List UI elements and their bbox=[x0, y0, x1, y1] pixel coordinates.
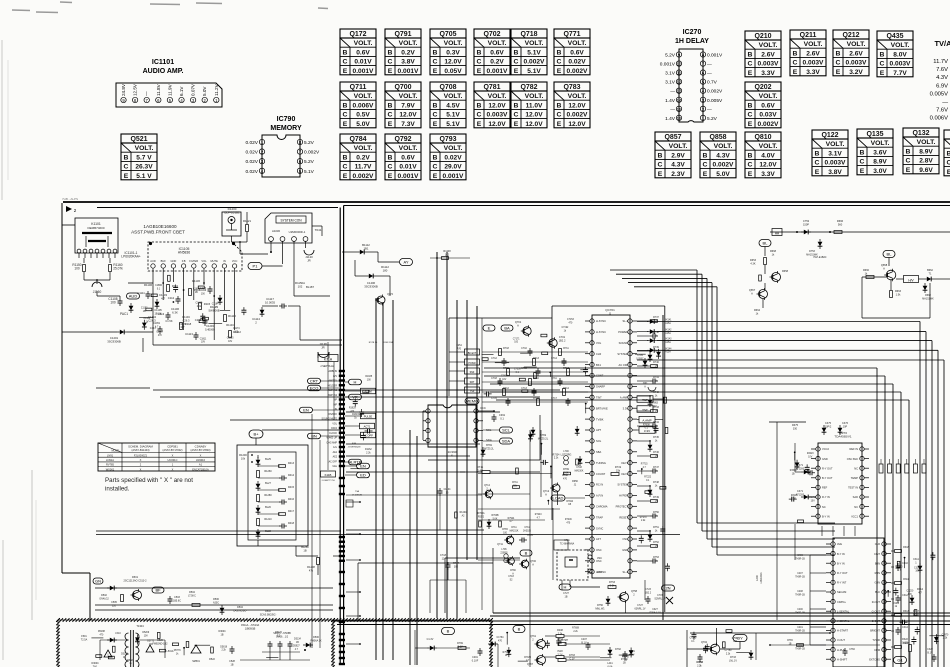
svg-text:R417: R417 bbox=[288, 510, 295, 513]
svg-text:B: B bbox=[557, 102, 562, 109]
svg-text:R416: R416 bbox=[288, 498, 295, 501]
svg-text:Q767: Q767 bbox=[527, 663, 534, 666]
svg-text:24.8V: 24.8V bbox=[121, 83, 126, 96]
svg-text:1k: 1k bbox=[655, 439, 658, 442]
svg-text:D5818: D5818 bbox=[220, 646, 227, 648]
svg-text:470: 470 bbox=[569, 322, 574, 324]
svg-text:3.1V: 3.1V bbox=[665, 80, 676, 86]
svg-text:C400: C400 bbox=[797, 609, 803, 611]
ceramic resonator module X701 bbox=[557, 550, 588, 580]
svg-text:COUNT: COUNT bbox=[596, 472, 606, 476]
svg-text:VOL: VOL bbox=[596, 341, 602, 345]
svg-text:C1404: C1404 bbox=[444, 489, 451, 491]
svg-text:0.07V: 0.07V bbox=[191, 83, 196, 96]
svg-text:B: B bbox=[525, 551, 528, 556]
svg-text:B-Y IN: B-Y IN bbox=[837, 552, 845, 556]
svg-text:UEL: UEL bbox=[333, 466, 338, 468]
svg-text:4.7: 4.7 bbox=[526, 660, 530, 662]
svg-text:2.2k: 2.2k bbox=[943, 638, 948, 640]
svg-text:1B: 1B bbox=[195, 292, 198, 294]
diode chain block D1261 bbox=[249, 430, 263, 438]
svg-text:DEMB74600: DEMB74600 bbox=[87, 226, 104, 230]
svg-text:C1886: C1886 bbox=[155, 285, 162, 287]
svg-text:A: A bbox=[751, 291, 753, 295]
svg-text:5.6K: 5.6K bbox=[493, 518, 498, 520]
horizontal bus band to right edge bbox=[657, 321, 920, 323]
svg-text:H: H bbox=[354, 380, 357, 385]
svg-text:A15A: A15A bbox=[665, 341, 671, 344]
svg-text:R1315: R1315 bbox=[352, 414, 359, 416]
svg-text:102: 102 bbox=[298, 284, 303, 288]
svg-text:B-OUT: B-OUT bbox=[872, 619, 880, 623]
svg-text:VOLT.: VOLT. bbox=[399, 93, 418, 100]
svg-text:4.7: 4.7 bbox=[295, 649, 299, 651]
svg-text:C7418: C7418 bbox=[501, 376, 508, 378]
svg-text:TEST IN: TEST IN bbox=[848, 486, 858, 490]
middle zone link wires bbox=[346, 382, 585, 384]
svg-text:OSC: OSC bbox=[596, 548, 602, 552]
svg-text:102: 102 bbox=[445, 253, 450, 256]
svg-text:Q810: Q810 bbox=[754, 134, 771, 141]
svg-text:VCC1: VCC1 bbox=[851, 514, 858, 518]
svg-text:C716: C716 bbox=[521, 367, 527, 370]
svg-text:CRT: CRT bbox=[310, 379, 319, 384]
svg-text:GND: GND bbox=[822, 457, 828, 461]
svg-text:1k: 1k bbox=[865, 272, 868, 275]
svg-text:14: 14 bbox=[677, 98, 682, 103]
svg-text:EN: EN bbox=[303, 408, 309, 413]
svg-text:10V: 10V bbox=[908, 594, 913, 596]
svg-text:R711: R711 bbox=[563, 347, 569, 350]
svg-text:0.002V: 0.002V bbox=[713, 162, 735, 169]
vertical wire right of jungle IC bbox=[662, 315, 664, 620]
svg-text:E: E bbox=[343, 121, 348, 128]
svg-text:R715: R715 bbox=[503, 367, 509, 370]
svg-text:LNL.1V: LNL.1V bbox=[729, 659, 737, 662]
svg-text:AVE: AVE bbox=[837, 542, 842, 546]
svg-text:C1619: C1619 bbox=[196, 303, 203, 305]
svg-text:0.006V: 0.006V bbox=[353, 102, 375, 109]
svg-text:B-IN: B-IN bbox=[875, 561, 880, 565]
bottom section divider lines bbox=[493, 612, 950, 614]
svg-text:E: E bbox=[793, 69, 798, 76]
svg-text:5.0V: 5.0V bbox=[716, 171, 730, 178]
svg-text:T041: T041 bbox=[315, 228, 322, 232]
svg-text:KEY1: KEY1 bbox=[621, 461, 628, 465]
svg-text:H-SYNC: H-SYNC bbox=[596, 330, 606, 334]
svg-text:Q857: Q857 bbox=[664, 134, 681, 141]
svg-text:C: C bbox=[433, 112, 438, 119]
svg-text:T2.5A: T2.5A bbox=[81, 638, 88, 641]
svg-text:P1: P1 bbox=[253, 264, 259, 269]
bottom right link wires bbox=[690, 632, 830, 634]
svg-text:C310: C310 bbox=[902, 562, 908, 565]
svg-text:4.0V: 4.0V bbox=[761, 152, 775, 159]
svg-text:0.03V: 0.03V bbox=[759, 112, 777, 119]
svg-text:1B: 1B bbox=[303, 548, 306, 552]
svg-text:Q781: Q781 bbox=[483, 84, 500, 91]
svg-text:0.002V: 0.002V bbox=[567, 68, 589, 75]
svg-text:2.2k: 2.2k bbox=[610, 584, 615, 587]
transistor voltage table Q702 bbox=[474, 29, 510, 38]
svg-text:E: E bbox=[557, 68, 562, 75]
svg-text:VOLT.: VOLT. bbox=[759, 93, 778, 100]
svg-text:TH0R-1B: TH0R-1B bbox=[795, 576, 805, 578]
svg-text:10V: 10V bbox=[201, 342, 206, 344]
svg-text:TDA4565/V1: TDA4565/V1 bbox=[834, 434, 852, 438]
svg-text:H-SYNC: H-SYNC bbox=[596, 319, 606, 323]
jungle IC right-side components bbox=[637, 320, 650, 322]
svg-text:X: X bbox=[172, 467, 174, 471]
svg-text:R768 A.1V: R768 A.1V bbox=[650, 611, 661, 614]
svg-text:S2: S2 bbox=[510, 579, 514, 581]
svg-text:1: 1 bbox=[915, 561, 917, 564]
svg-text:SNF: SNF bbox=[470, 371, 475, 374]
svg-text:0.1UF: 0.1UF bbox=[472, 659, 479, 662]
svg-text:0.002V: 0.002V bbox=[567, 112, 589, 119]
svg-text:H: H bbox=[564, 585, 567, 590]
svg-text:T1: T1 bbox=[929, 272, 933, 275]
svg-text:8.0V: 8.0V bbox=[893, 51, 907, 58]
svg-text:A20C: A20C bbox=[213, 601, 219, 604]
right-edge vertical bus bbox=[876, 415, 878, 667]
svg-text:B: B bbox=[343, 154, 348, 161]
svg-text:Q783: Q783 bbox=[563, 84, 580, 91]
svg-text:E: E bbox=[815, 169, 820, 176]
schematic frame borders bbox=[66, 206, 72, 212]
svg-text:C1829: C1829 bbox=[199, 290, 206, 292]
svg-text:B: B bbox=[880, 51, 885, 58]
svg-text:1B: 1B bbox=[143, 311, 146, 313]
capacitor C1201 coupling bbox=[96, 296, 98, 330]
svg-text:C: C bbox=[388, 112, 393, 119]
svg-text:R3309: R3309 bbox=[790, 470, 797, 472]
svg-text:BA: BA bbox=[504, 326, 510, 331]
svg-text:D5772: D5772 bbox=[147, 640, 154, 642]
svg-text:JR: JR bbox=[321, 345, 324, 349]
svg-text:3.8V: 3.8V bbox=[401, 59, 415, 66]
svg-text:H/V: H/V bbox=[908, 278, 914, 282]
svg-text:C753: C753 bbox=[803, 219, 810, 223]
svg-text:10V: 10V bbox=[180, 327, 185, 329]
svg-text:VOLT.: VOLT. bbox=[759, 42, 778, 49]
svg-text:2: 2 bbox=[633, 593, 635, 596]
svg-text:2.3V: 2.3V bbox=[671, 171, 685, 178]
svg-text:C1951: C1951 bbox=[153, 323, 160, 325]
svg-text:C: C bbox=[860, 159, 865, 166]
svg-text:F.B: F.B bbox=[182, 259, 186, 263]
svg-text:560: 560 bbox=[838, 222, 843, 226]
svg-text:3KD: 3KD bbox=[597, 570, 602, 574]
svg-text:VOLT.: VOLT. bbox=[488, 40, 507, 47]
svg-text:L-SENTAL: L-SENTAL bbox=[837, 609, 850, 613]
transistor voltage table (cut at page edge) bbox=[944, 130, 950, 139]
svg-text:R7608: R7608 bbox=[572, 628, 579, 630]
svg-text:11.2V: 11.2V bbox=[214, 83, 219, 96]
svg-text:1B: 1B bbox=[623, 663, 626, 665]
svg-text:C: C bbox=[343, 59, 348, 66]
svg-text:A: A bbox=[545, 492, 547, 496]
svg-text:VOLT.: VOLT. bbox=[444, 93, 463, 100]
svg-text:1B2.2: 1B2.2 bbox=[559, 338, 566, 342]
lower right extra parts bbox=[902, 620, 904, 625]
svg-text:C3401: C3401 bbox=[892, 603, 899, 605]
svg-text:B: B bbox=[815, 150, 820, 157]
svg-text:VOLT.: VOLT. bbox=[525, 40, 544, 47]
main connector bus J1307 bbox=[339, 208, 341, 666]
svg-text:X: X bbox=[140, 467, 142, 471]
svg-text:R765A: R765A bbox=[477, 512, 484, 515]
svg-text:R415: R415 bbox=[288, 486, 295, 489]
svg-text:6.9V: 6.9V bbox=[936, 83, 948, 89]
svg-text:12.0V: 12.0V bbox=[488, 121, 506, 128]
svg-text:TV/A: TV/A bbox=[934, 39, 950, 48]
svg-text:2.2k: 2.2k bbox=[573, 631, 578, 633]
svg-text:0.001V: 0.001V bbox=[660, 62, 676, 68]
svg-text:11.8V: 11.8V bbox=[156, 83, 161, 96]
svg-text:J7.03RUN: J7.03RUN bbox=[352, 494, 363, 496]
svg-text:R3110: R3110 bbox=[791, 495, 798, 497]
svg-text:0.1: 0.1 bbox=[516, 372, 520, 374]
svg-text:12.0V: 12.0V bbox=[399, 112, 417, 119]
svg-text:1B: 1B bbox=[624, 660, 627, 662]
svg-text:0.001V: 0.001V bbox=[707, 53, 723, 59]
svg-text:C: C bbox=[793, 60, 798, 67]
svg-text:V-SENTAL: V-SENTAL bbox=[837, 619, 850, 623]
svg-text:3.1V: 3.1V bbox=[665, 71, 676, 77]
svg-text:C1572: C1572 bbox=[179, 324, 186, 326]
svg-text:T9A: T9A bbox=[355, 490, 360, 493]
svg-text:VOLT.: VOLT. bbox=[759, 143, 778, 150]
svg-text:E: E bbox=[433, 121, 438, 128]
svg-text:FILTER: FILTER bbox=[189, 259, 198, 263]
svg-text:4.7: 4.7 bbox=[161, 296, 165, 300]
svg-text:TH0R-1B: TH0R-1B bbox=[795, 558, 805, 560]
transistor voltage table Q791 bbox=[385, 29, 421, 38]
svg-text:12V: 12V bbox=[333, 376, 338, 378]
transistor voltage table Q781 bbox=[474, 82, 510, 91]
svg-text:3.8V: 3.8V bbox=[828, 169, 842, 176]
svg-text:CRM: CRM bbox=[874, 648, 880, 652]
svg-text:V-OUT: V-OUT bbox=[837, 638, 845, 642]
svg-text:100: 100 bbox=[201, 294, 206, 296]
svg-text:E: E bbox=[433, 68, 438, 75]
svg-text:BRT/VIVE: BRT/VIVE bbox=[596, 406, 608, 410]
svg-text:12.0V: 12.0V bbox=[444, 59, 462, 66]
svg-text:302: 302 bbox=[454, 565, 459, 568]
svg-text:A: A bbox=[883, 266, 885, 270]
bottom centre wires bbox=[492, 548, 494, 613]
svg-text:12.0V: 12.0V bbox=[525, 121, 543, 128]
svg-text:C1203: C1203 bbox=[206, 324, 214, 328]
svg-text:J.SEPTA1H: J.SEPTA1H bbox=[320, 364, 334, 368]
svg-text:4.3V: 4.3V bbox=[671, 162, 685, 169]
svg-text:AFT: AFT bbox=[596, 537, 601, 541]
svg-text:BL22: BL22 bbox=[265, 530, 271, 533]
svg-text:AY: AY bbox=[403, 260, 408, 265]
transformer K1101 input block bbox=[75, 218, 118, 253]
svg-text:5.0V: 5.0V bbox=[356, 121, 370, 128]
svg-text:B: B bbox=[433, 154, 438, 161]
svg-text:E: E bbox=[477, 121, 482, 128]
svg-text:Parts specified with " X ": Parts specified with " X " are not bbox=[105, 477, 193, 484]
svg-text:11.9V: 11.9V bbox=[167, 83, 172, 96]
svg-text:C: C bbox=[880, 61, 885, 68]
svg-text:10V: 10V bbox=[653, 406, 658, 408]
svg-text:1.4V: 1.4V bbox=[665, 116, 676, 122]
svg-text:2.8V: 2.8V bbox=[919, 158, 933, 165]
svg-text:R-IN: R-IN bbox=[875, 571, 880, 575]
svg-text:R-OUT: R-OUT bbox=[872, 600, 881, 604]
jungle IC left passive ladder bbox=[523, 327, 531, 335]
svg-text:C314: C314 bbox=[902, 626, 908, 629]
svg-text:TV/BK: TV/BK bbox=[596, 417, 604, 421]
svg-text:MUTE: MUTE bbox=[211, 259, 219, 263]
svg-text:C714: C714 bbox=[551, 357, 557, 360]
svg-text:R3423: R3423 bbox=[807, 453, 814, 455]
svg-text:2.2k: 2.2k bbox=[641, 520, 646, 522]
svg-text:100: 100 bbox=[503, 532, 508, 534]
test point labels bbox=[637, 396, 653, 403]
svg-text:R1260: R1260 bbox=[264, 470, 272, 473]
svg-text:KEY2: KEY2 bbox=[621, 472, 628, 476]
svg-text:10V: 10V bbox=[228, 341, 233, 343]
svg-text:LN91: LN91 bbox=[107, 453, 114, 457]
svg-text:D5113: D5113 bbox=[121, 654, 128, 656]
transistor voltage table Q810 bbox=[745, 132, 781, 141]
svg-text:SL-1: SL-1 bbox=[623, 570, 629, 574]
svg-text:VOLT.: VOLT. bbox=[804, 41, 823, 48]
svg-text:TRAP: TRAP bbox=[596, 515, 603, 519]
svg-text:R713: R713 bbox=[533, 357, 539, 360]
svg-text:TEMP: TEMP bbox=[851, 476, 858, 480]
svg-text:C1326: C1326 bbox=[143, 318, 150, 320]
svg-text:12.0V: 12.0V bbox=[568, 102, 586, 109]
svg-text:C: C bbox=[748, 112, 753, 119]
svg-text:Q782: Q782 bbox=[520, 84, 537, 91]
svg-text:Q791: Q791 bbox=[394, 31, 411, 38]
mid-left components near jungle IC bbox=[481, 405, 483, 610]
svg-text:E: E bbox=[703, 171, 708, 178]
svg-text:R313: R313 bbox=[903, 610, 909, 613]
svg-text:3.3V: 3.3V bbox=[806, 69, 820, 76]
transistor cluster Q657/Q658 bbox=[759, 240, 771, 247]
svg-text:C7750: C7750 bbox=[725, 650, 732, 652]
svg-text:A15A: A15A bbox=[665, 351, 671, 354]
svg-text:SECAM: SECAM bbox=[837, 590, 846, 594]
svg-text:2: 2 bbox=[255, 320, 257, 324]
svg-text:AUD: AUD bbox=[129, 294, 138, 299]
svg-text:0.003V: 0.003V bbox=[487, 112, 509, 119]
svg-text:VOL: VOL bbox=[332, 423, 337, 425]
left margin scan marks bbox=[31, 470, 33, 620]
svg-text:Q210: Q210 bbox=[754, 33, 771, 40]
svg-text:Q771: Q771 bbox=[563, 31, 580, 38]
svg-text:MODEL: MODEL bbox=[111, 450, 120, 453]
svg-text:C407: C407 bbox=[797, 573, 803, 575]
svg-text:TH0R-1B: TH0R-1B bbox=[795, 594, 805, 596]
svg-text:REF IN: REF IN bbox=[849, 447, 858, 451]
transistor voltage table Q212 bbox=[833, 30, 869, 39]
svg-text:C: C bbox=[433, 164, 438, 171]
svg-text:R7270: R7270 bbox=[640, 517, 647, 519]
svg-text:0.6V: 0.6V bbox=[570, 49, 584, 56]
svg-text:R766B: R766B bbox=[491, 515, 498, 517]
svg-text:C701: C701 bbox=[559, 335, 566, 339]
svg-text:G1: G1 bbox=[897, 658, 903, 663]
svg-text:Q135: Q135 bbox=[866, 131, 883, 138]
svg-text:C: C bbox=[514, 59, 519, 66]
svg-text:(ASSY-BY17803): (ASSY-BY17803) bbox=[191, 448, 211, 452]
svg-text:B: B bbox=[658, 152, 663, 159]
svg-text:E: E bbox=[514, 68, 519, 75]
svg-text:C: C bbox=[906, 158, 911, 165]
svg-text:150P: 150P bbox=[803, 222, 809, 226]
svg-text:—: — bbox=[707, 63, 712, 68]
svg-text:C718: C718 bbox=[491, 377, 497, 380]
svg-text:0.3V: 0.3V bbox=[446, 49, 460, 56]
svg-text:5.2V: 5.2V bbox=[707, 116, 718, 122]
svg-text:VOLT.: VOLT. bbox=[444, 40, 463, 47]
svg-text:100: 100 bbox=[110, 300, 116, 304]
svg-text:LQ???RG: LQ???RG bbox=[561, 453, 572, 456]
svg-text:5.1V: 5.1V bbox=[527, 49, 541, 56]
svg-text:2.6V: 2.6V bbox=[849, 50, 863, 57]
svg-text:VOLT.: VOLT. bbox=[568, 93, 587, 100]
svg-text:4.3V: 4.3V bbox=[936, 75, 948, 81]
svg-text:R1110: R1110 bbox=[228, 314, 236, 318]
svg-text:C1407: C1407 bbox=[156, 332, 163, 334]
svg-text:E: E bbox=[124, 173, 129, 180]
svg-text:IN: IN bbox=[223, 259, 226, 263]
svg-text:J1: J1 bbox=[574, 483, 577, 486]
svg-text:WX001: WX001 bbox=[106, 467, 115, 471]
svg-text:A70: A70 bbox=[457, 347, 462, 350]
transistor voltage table Q172 bbox=[340, 29, 376, 38]
svg-text:R666: R666 bbox=[837, 219, 844, 223]
svg-text:D5134: D5134 bbox=[294, 638, 301, 640]
svg-text:3.0V: 3.0V bbox=[873, 168, 887, 175]
horizontal link wires bbox=[153, 389, 560, 391]
svg-text:SYSTEM: SYSTEM bbox=[617, 352, 628, 356]
svg-text:SRT: SRT bbox=[470, 381, 475, 384]
svg-text:R718: R718 bbox=[503, 347, 509, 350]
lower-right IC left externals bbox=[810, 554, 826, 556]
svg-text:0.02V: 0.02V bbox=[245, 140, 258, 146]
svg-text:D5188: D5188 bbox=[98, 631, 105, 633]
svg-text:C: C bbox=[433, 59, 438, 66]
svg-text:B: B bbox=[343, 102, 348, 109]
transistor voltage table Q700 bbox=[385, 82, 421, 91]
svg-text:AE2: AE2 bbox=[333, 456, 338, 459]
svg-text:—: — bbox=[707, 72, 712, 77]
svg-text:12.0V: 12.0V bbox=[488, 102, 506, 109]
svg-text:R7185: R7185 bbox=[524, 657, 531, 659]
transistor voltage table Q858 bbox=[700, 132, 736, 141]
svg-text:MNL.W1: MNL.W1 bbox=[595, 607, 605, 610]
svg-text:1k: 1k bbox=[655, 484, 658, 487]
svg-text:ENCAT1B10A: ENCAT1B10A bbox=[192, 467, 209, 471]
svg-text:Q705: Q705 bbox=[439, 31, 456, 38]
svg-text:0.001V: 0.001V bbox=[398, 173, 420, 180]
svg-text:B: B bbox=[518, 627, 521, 632]
svg-text:J.USEPT1TH: J.USEPT1TH bbox=[321, 480, 335, 482]
svg-text:0.005V: 0.005V bbox=[707, 98, 723, 104]
audio fanout extra parts bbox=[173, 287, 178, 289]
svg-text:BUF: BUF bbox=[161, 259, 167, 263]
svg-text:D5779: D5779 bbox=[174, 650, 181, 652]
transistor voltage table Q711 bbox=[340, 82, 376, 91]
